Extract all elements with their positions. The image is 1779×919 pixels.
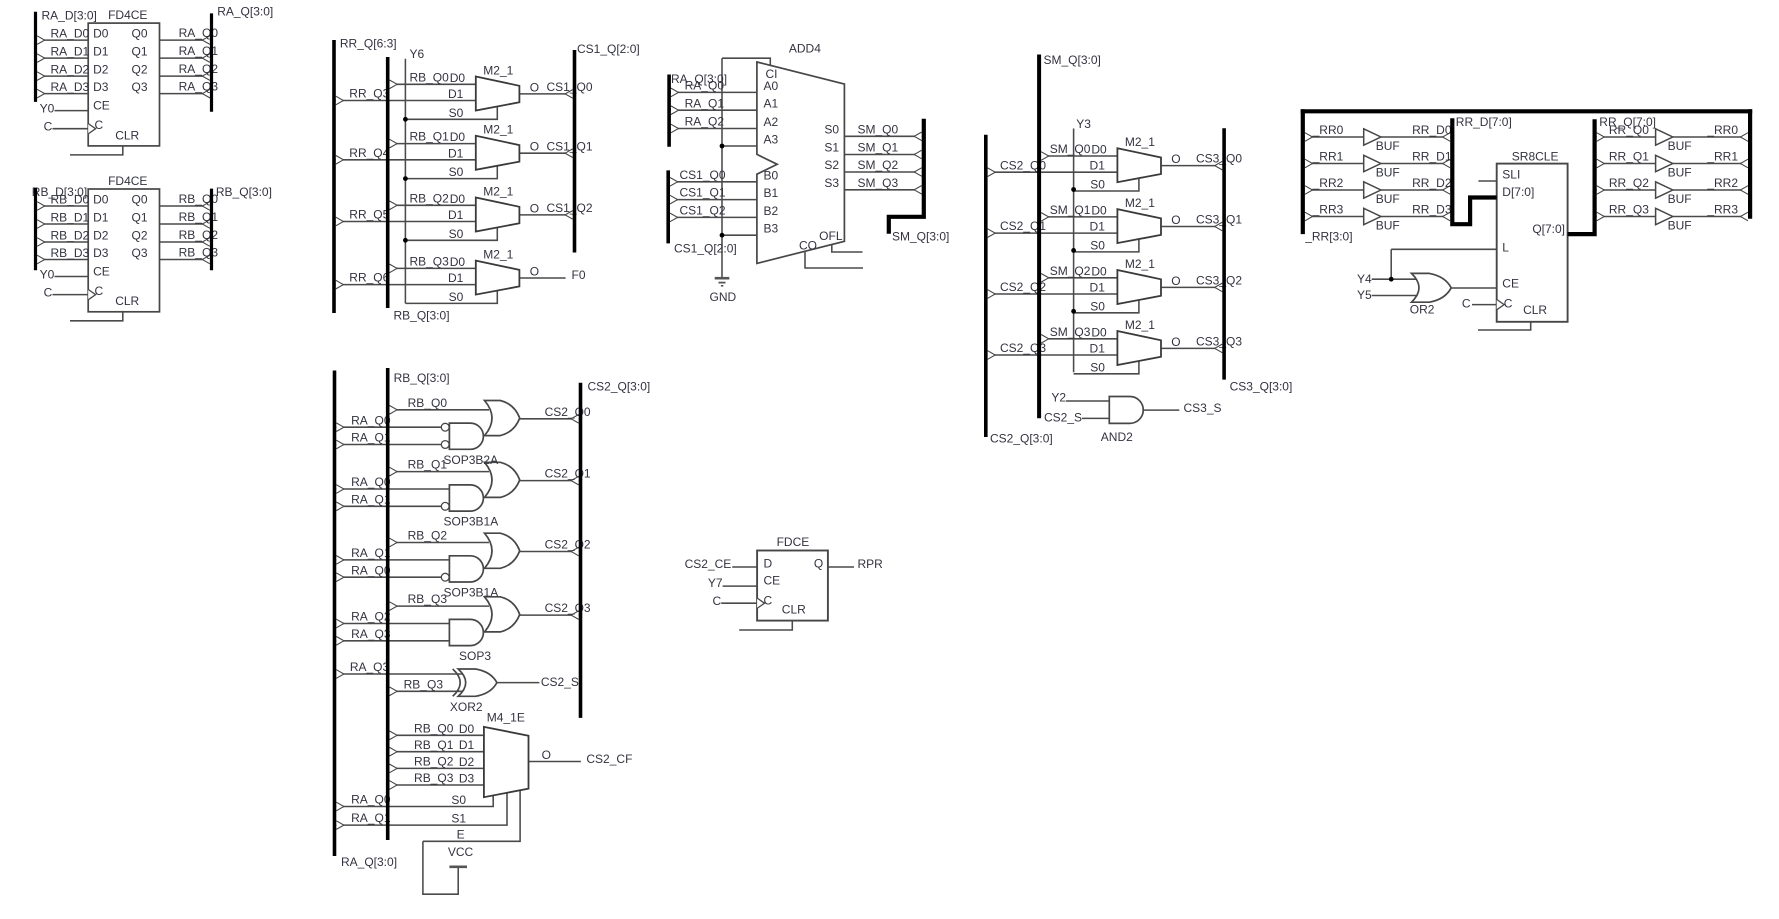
svg-text:CS2_Q0: CS2_Q0 [545,405,591,419]
svg-text:RA_Q1: RA_Q1 [351,431,391,445]
svg-text:D: D [764,557,773,571]
svg-text:BUF: BUF [1668,166,1692,180]
svg-text:VCC: VCC [448,845,474,859]
svg-text:CE: CE [93,264,110,278]
svg-text:O: O [530,140,539,154]
svg-text:FDCE: FDCE [777,535,810,549]
svg-text:D0: D0 [459,722,475,736]
svg-text:D0: D0 [1091,203,1107,217]
svg-text:CS2_Q2: CS2_Q2 [545,538,591,552]
svg-text:A3: A3 [764,133,779,147]
svg-text:AND2: AND2 [1101,430,1133,444]
svg-text:D1: D1 [1090,159,1106,173]
svg-text:RA_Q0: RA_Q0 [351,563,391,577]
svg-text:CLR: CLR [782,602,806,616]
svg-text:RR_D2: RR_D2 [1412,176,1452,190]
svg-text:Q1: Q1 [131,211,147,225]
svg-text:SLI: SLI [1502,167,1520,181]
svg-text:RB_D3: RB_D3 [51,246,90,260]
svg-text:O: O [542,748,551,762]
svg-text:D1: D1 [448,146,464,160]
svg-text:SM_Q1: SM_Q1 [1050,203,1091,217]
svg-text:CS1_Q2: CS1_Q2 [546,201,592,215]
svg-text:C: C [95,118,104,132]
svg-text:RPR: RPR [858,557,884,571]
svg-text:D1: D1 [1090,281,1106,295]
svg-text:M2_1: M2_1 [483,63,513,77]
svg-text:RB_Q0: RB_Q0 [409,70,449,84]
svg-text:RB_Q0: RB_Q0 [414,721,454,735]
svg-text:D1: D1 [93,211,109,225]
svg-text:S0: S0 [1090,178,1105,192]
svg-text:S2: S2 [824,158,839,172]
svg-text:D1: D1 [1090,342,1106,356]
svg-text:Q2: Q2 [131,63,147,77]
svg-text:RR_Q2: RR_Q2 [1609,176,1649,190]
svg-text:Q3: Q3 [131,246,147,260]
svg-text:SM_Q[3:0]: SM_Q[3:0] [1044,53,1101,67]
svg-text:BUF: BUF [1668,139,1692,153]
svg-text:S3: S3 [824,176,839,190]
svg-text:SOP3B2A: SOP3B2A [443,453,498,467]
svg-text:M2_1: M2_1 [483,123,513,137]
svg-text:_RR1: _RR1 [1706,150,1738,164]
svg-text:C: C [95,284,104,298]
svg-text:D2: D2 [93,229,109,243]
svg-text:_RR3: _RR3 [1706,203,1738,217]
svg-text:S0: S0 [449,106,464,120]
svg-text:SOP3B1A: SOP3B1A [444,586,499,600]
svg-text:BUF: BUF [1376,192,1400,206]
svg-text:D0: D0 [1091,264,1107,278]
svg-text:RA_Q2: RA_Q2 [685,115,725,129]
svg-text:RR_D3: RR_D3 [1412,203,1452,217]
svg-text:CS2_CF: CS2_CF [586,752,632,766]
svg-text:CLR: CLR [1523,303,1547,317]
svg-text:SM_Q3: SM_Q3 [1050,325,1091,339]
svg-text:RA_D1: RA_D1 [51,45,90,59]
svg-text:CS3_Q1: CS3_Q1 [1196,213,1242,227]
svg-text:_RR0: _RR0 [1312,123,1344,137]
svg-text:_RR0: _RR0 [1706,123,1738,137]
svg-text:Y0: Y0 [40,102,55,116]
svg-text:CS2_Q3: CS2_Q3 [545,601,591,615]
svg-text:CS2_CE: CS2_CE [685,557,732,571]
svg-text:D2: D2 [459,755,475,769]
svg-text:RR_Q[7:0]: RR_Q[7:0] [1599,115,1656,129]
svg-text:RA_Q1: RA_Q1 [351,811,391,825]
svg-text:Y3: Y3 [1076,117,1091,131]
svg-text:B3: B3 [764,222,779,236]
svg-text:RA_D3: RA_D3 [51,80,90,94]
svg-text:Q: Q [814,557,823,571]
svg-text:D0: D0 [1091,143,1107,157]
svg-text:CE: CE [1502,277,1519,291]
svg-text:D[7:0]: D[7:0] [1502,185,1534,199]
svg-text:Q2: Q2 [131,229,147,243]
svg-text:SOP3B1A: SOP3B1A [444,515,499,529]
svg-text:B1: B1 [764,186,779,200]
svg-text:M2_1: M2_1 [1125,257,1155,271]
svg-text:S0: S0 [451,793,466,807]
svg-text:D0: D0 [93,27,109,41]
svg-text:S1: S1 [451,811,466,825]
svg-text:RB_Q2: RB_Q2 [409,191,449,205]
svg-text:M2_1: M2_1 [483,247,513,261]
svg-text:A2: A2 [764,115,779,129]
svg-text:D1: D1 [459,738,475,752]
svg-text:C: C [44,120,53,134]
svg-text:RB_Q3: RB_Q3 [409,255,449,269]
svg-text:RA_Q1: RA_Q1 [351,492,391,506]
svg-text:D0: D0 [450,192,466,206]
svg-text:ADD4: ADD4 [789,41,821,55]
svg-text:CS2_Q[3:0]: CS2_Q[3:0] [588,380,651,394]
svg-text:RR_Q6: RR_Q6 [349,271,389,285]
svg-text:RB_D1: RB_D1 [51,211,90,225]
svg-text:S0: S0 [449,227,464,241]
svg-text:RB_Q2: RB_Q2 [414,755,454,769]
svg-text:Q0: Q0 [131,27,147,41]
svg-text:C: C [764,594,773,608]
svg-text:RB_Q1: RB_Q1 [408,458,448,472]
svg-text:BUF: BUF [1376,166,1400,180]
svg-text:CS2_Q1: CS2_Q1 [545,467,591,481]
svg-text:M4_1E: M4_1E [487,710,525,724]
svg-text:Y0: Y0 [40,268,55,282]
svg-text:SM_Q3: SM_Q3 [858,176,899,190]
svg-text:RB_Q[3:0]: RB_Q[3:0] [394,309,450,323]
svg-text:B2: B2 [764,204,779,218]
svg-text:Q0: Q0 [131,193,147,207]
svg-text:S0: S0 [1090,360,1105,374]
svg-text:RR_D1: RR_D1 [1412,150,1452,164]
svg-text:S1: S1 [824,141,839,155]
svg-text:OR2: OR2 [1410,302,1435,316]
svg-text:CS3_Q3: CS3_Q3 [1196,335,1242,349]
svg-text:XOR2: XOR2 [450,700,483,714]
svg-text:RA_D0: RA_D0 [51,27,90,41]
svg-text:SR8CLE: SR8CLE [1512,150,1559,164]
svg-text:Q3: Q3 [131,80,147,94]
svg-text:BUF: BUF [1668,219,1692,233]
svg-text:RA_Q2: RA_Q2 [351,610,391,624]
svg-text:CS2_S: CS2_S [1044,411,1082,425]
svg-text:S0: S0 [824,123,839,137]
svg-text:_RR2: _RR2 [1706,176,1738,190]
svg-text:CLR: CLR [115,294,139,308]
svg-text:Y6: Y6 [410,47,425,61]
svg-text:M2_1: M2_1 [1125,196,1155,210]
svg-text:RA_Q0: RA_Q0 [351,413,391,427]
svg-text:RA_Q0: RA_Q0 [351,793,391,807]
svg-text:O: O [530,201,539,215]
svg-text:D0: D0 [450,71,466,85]
svg-text:RA_Q3: RA_Q3 [350,660,390,674]
svg-text:CE: CE [93,98,110,112]
svg-text:Y4: Y4 [1357,272,1372,286]
svg-text:D1: D1 [93,45,109,59]
svg-text:L: L [1502,241,1509,255]
svg-text:RB_Q3: RB_Q3 [404,677,444,691]
svg-text:S0: S0 [449,165,464,179]
svg-text:S0: S0 [449,290,464,304]
svg-text:CS3_Q0: CS3_Q0 [1196,152,1242,166]
svg-text:CS1_Q1: CS1_Q1 [679,186,725,200]
svg-text:CS1_Q0: CS1_Q0 [679,168,725,182]
svg-text:CS1_Q[2:0]: CS1_Q[2:0] [674,242,737,256]
svg-text:Q1: Q1 [131,45,147,59]
svg-text:BUF: BUF [1376,139,1400,153]
svg-text:CS3_Q2: CS3_Q2 [1196,274,1242,288]
svg-text:CE: CE [764,574,781,588]
svg-text:GND: GND [710,290,737,304]
svg-text:CS1_Q[2:0]: CS1_Q[2:0] [577,42,640,56]
svg-text:D0: D0 [450,255,466,269]
svg-text:A0: A0 [764,79,779,93]
svg-text:RB_Q3: RB_Q3 [414,771,454,785]
svg-text:D0: D0 [1091,325,1107,339]
svg-text:RA_Q3: RA_Q3 [351,627,391,641]
svg-text:RA_D[3:0]: RA_D[3:0] [42,9,97,23]
svg-text:Q[7:0]: Q[7:0] [1532,222,1565,236]
svg-text:Y7: Y7 [708,576,723,590]
svg-text:C: C [44,286,53,300]
svg-text:RR_D0: RR_D0 [1412,123,1452,137]
svg-text:O: O [1171,152,1180,166]
svg-text:RA_Q[3:0]: RA_Q[3:0] [341,855,397,869]
svg-text:C: C [1504,297,1513,311]
svg-text:D1: D1 [1090,220,1106,234]
svg-text:F0: F0 [572,268,586,282]
svg-text:B0: B0 [764,168,779,182]
svg-text:_RR3: _RR3 [1312,203,1344,217]
svg-text:SM_Q1: SM_Q1 [858,141,899,155]
svg-text:CS3_S: CS3_S [1184,401,1222,415]
svg-text:Y2: Y2 [1051,391,1066,405]
svg-text:RR_Q[6:3]: RR_Q[6:3] [340,37,397,51]
svg-text:D0: D0 [450,130,466,144]
svg-text:C: C [713,594,722,608]
svg-text:D0: D0 [93,193,109,207]
svg-text:RR_Q4: RR_Q4 [349,146,389,160]
svg-text:_RR[3:0]: _RR[3:0] [1304,229,1352,243]
svg-text:CS1_Q0: CS1_Q0 [546,80,592,94]
svg-text:SM_Q2: SM_Q2 [858,158,899,172]
svg-text:RB_Q2: RB_Q2 [408,529,448,543]
svg-text:D1: D1 [448,208,464,222]
svg-text:RA_Q[3:0]: RA_Q[3:0] [217,5,273,19]
svg-text:Y5: Y5 [1357,288,1372,302]
svg-text:RR_Q3: RR_Q3 [1609,203,1649,217]
svg-text:D2: D2 [93,63,109,77]
svg-text:SM_Q[3:0]: SM_Q[3:0] [892,230,949,244]
svg-text:CS1_Q2: CS1_Q2 [679,204,725,218]
svg-text:RA_Q1: RA_Q1 [685,96,725,110]
svg-text:D3: D3 [93,246,109,260]
svg-text:RA_Q0: RA_Q0 [685,79,725,93]
svg-text:SOP3: SOP3 [459,649,491,663]
svg-text:O: O [530,265,539,279]
svg-text:RB_Q[3:0]: RB_Q[3:0] [394,371,450,385]
svg-text:D3: D3 [93,80,109,94]
svg-text:O: O [1171,213,1180,227]
svg-text:RB_Q[3:0]: RB_Q[3:0] [216,185,272,199]
svg-text:SM_Q2: SM_Q2 [1050,264,1091,278]
svg-text:RA_Q1: RA_Q1 [351,546,391,560]
svg-text:S0: S0 [1090,299,1105,313]
svg-text:M2_1: M2_1 [483,184,513,198]
svg-text:CLR: CLR [115,128,139,142]
svg-text:CO: CO [799,238,817,252]
svg-text:CS3_Q[3:0]: CS3_Q[3:0] [1230,380,1293,394]
svg-text:CS2_Q[3:0]: CS2_Q[3:0] [990,432,1053,446]
svg-text:O: O [530,80,539,94]
svg-text:RR_Q1: RR_Q1 [1609,150,1649,164]
svg-text:M2_1: M2_1 [1125,318,1155,332]
svg-text:S0: S0 [1090,238,1105,252]
svg-text:FD4CE: FD4CE [108,174,147,188]
svg-text:SM_Q0: SM_Q0 [858,122,899,136]
svg-text:D1: D1 [448,271,464,285]
svg-text:E: E [457,828,465,842]
svg-text:RR_Q5: RR_Q5 [349,208,389,222]
svg-text:A1: A1 [764,97,779,111]
svg-text:O: O [1171,274,1180,288]
svg-text:RB_Q0: RB_Q0 [408,396,448,410]
svg-text:_RR1: _RR1 [1312,150,1344,164]
svg-text:RA_D2: RA_D2 [51,63,90,77]
svg-text:BUF: BUF [1376,219,1400,233]
svg-text:RB_Q1: RB_Q1 [414,738,454,752]
svg-text:FD4CE: FD4CE [108,8,147,22]
svg-text:D3: D3 [459,772,475,786]
svg-text:BUF: BUF [1668,192,1692,206]
svg-text:M2_1: M2_1 [1125,135,1155,149]
svg-text:RB_Q3: RB_Q3 [408,592,448,606]
svg-text:CS2_S: CS2_S [541,675,579,689]
svg-text:RA_Q0: RA_Q0 [351,475,391,489]
svg-text:_RR2: _RR2 [1312,176,1344,190]
svg-text:O: O [1171,335,1180,349]
svg-text:RR_Q3: RR_Q3 [349,87,389,101]
svg-text:SM_Q0: SM_Q0 [1050,142,1091,156]
svg-text:RB_D[3:0]: RB_D[3:0] [32,185,87,199]
svg-text:RB_Q1: RB_Q1 [409,130,449,144]
svg-text:D1: D1 [448,87,464,101]
svg-text:RB_D2: RB_D2 [51,229,90,243]
svg-text:RR_D[7:0]: RR_D[7:0] [1456,115,1512,129]
svg-text:CS1_Q1: CS1_Q1 [546,139,592,153]
svg-text:C: C [1462,297,1471,311]
svg-text:OFL: OFL [819,229,843,243]
